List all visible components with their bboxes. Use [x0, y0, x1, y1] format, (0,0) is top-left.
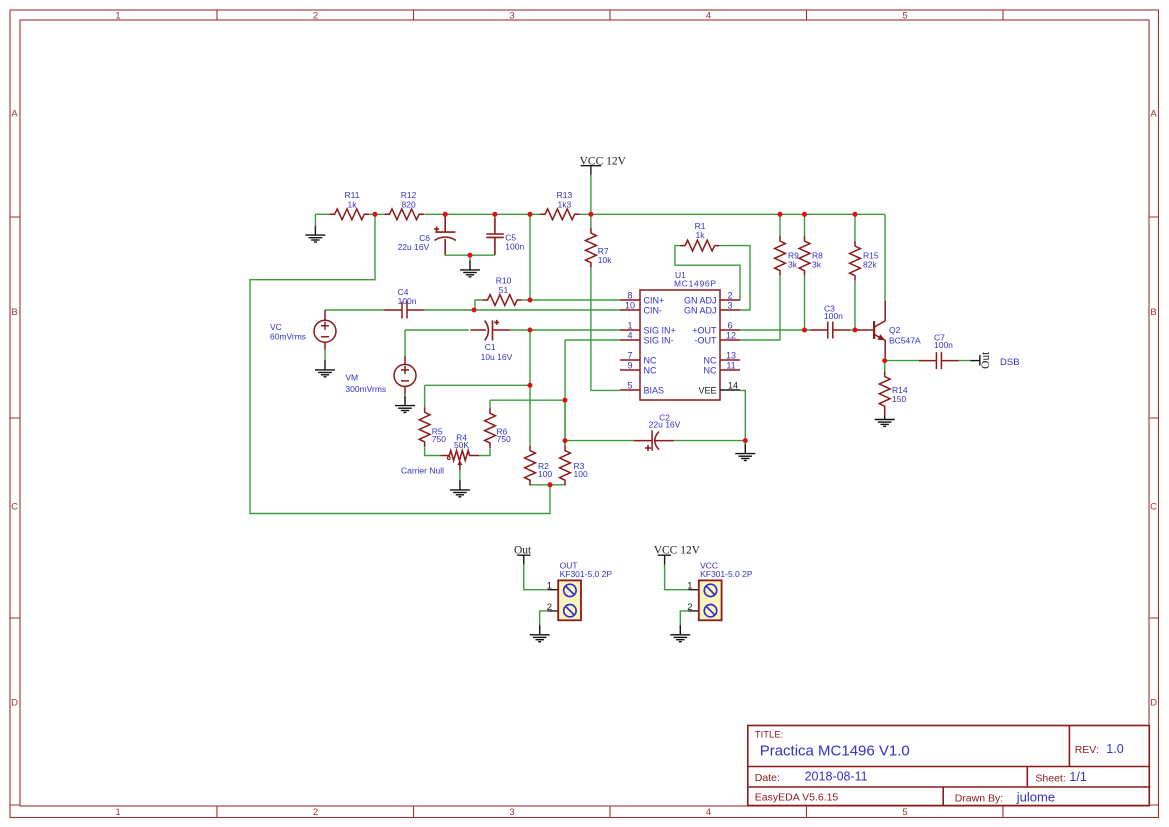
svg-text:5: 5 — [902, 11, 907, 22]
svg-text:KF301-5.0 2P: KF301-5.0 2P — [560, 569, 613, 579]
svg-text:100: 100 — [538, 469, 552, 479]
svg-text:VCC 12V: VCC 12V — [580, 155, 627, 167]
svg-text:VEE: VEE — [698, 385, 716, 395]
svg-text:4: 4 — [706, 807, 711, 818]
svg-text:R11: R11 — [345, 190, 360, 200]
svg-text:1: 1 — [627, 321, 632, 331]
svg-text:100n: 100n — [398, 296, 417, 306]
svg-text:2: 2 — [313, 11, 318, 22]
svg-text:3: 3 — [727, 301, 732, 311]
svg-text:2: 2 — [727, 291, 732, 301]
svg-text:Out: Out — [514, 545, 532, 557]
svg-text:-OUT: -OUT — [695, 335, 717, 345]
svg-text:B: B — [11, 307, 17, 318]
svg-text:EasyEDA V5.6.15: EasyEDA V5.6.15 — [755, 791, 839, 803]
svg-text:B: B — [1150, 307, 1156, 318]
svg-text:BIAS: BIAS — [644, 385, 665, 395]
svg-text:100n: 100n — [934, 340, 953, 350]
svg-text:Practica MC1496 V1.0: Practica MC1496 V1.0 — [760, 743, 910, 760]
svg-text:2: 2 — [313, 807, 318, 818]
svg-text:100n: 100n — [824, 311, 843, 321]
svg-text:D: D — [1150, 698, 1157, 709]
svg-text:BC547A: BC547A — [889, 335, 921, 345]
svg-text:3: 3 — [509, 807, 514, 818]
svg-text:150: 150 — [892, 394, 906, 404]
svg-text:Sheet:: Sheet: — [1035, 773, 1065, 785]
svg-text:A: A — [1150, 109, 1157, 120]
svg-text:4: 4 — [627, 331, 632, 341]
svg-text:julome: julome — [1016, 789, 1055, 804]
svg-text:DSB: DSB — [1000, 357, 1020, 368]
svg-text:VM: VM — [345, 373, 358, 383]
svg-text:Carrier Null: Carrier Null — [401, 466, 444, 476]
svg-text:1: 1 — [687, 581, 692, 592]
svg-text:8: 8 — [627, 291, 632, 301]
svg-text:C: C — [11, 502, 18, 513]
svg-text:TITLE:: TITLE: — [755, 729, 784, 740]
svg-text:GN ADJ: GN ADJ — [684, 305, 717, 315]
svg-text:C1: C1 — [485, 342, 496, 352]
svg-text:11: 11 — [726, 361, 735, 371]
svg-text:1/1: 1/1 — [1069, 770, 1086, 784]
svg-text:100n: 100n — [505, 242, 524, 252]
svg-text:82k: 82k — [863, 260, 877, 270]
svg-text:100: 100 — [574, 469, 588, 479]
svg-text:1: 1 — [547, 581, 552, 592]
svg-text:22u 16V: 22u 16V — [398, 242, 430, 252]
svg-text:9: 9 — [627, 361, 632, 371]
svg-text:3: 3 — [509, 11, 514, 22]
svg-text:1.0: 1.0 — [1106, 742, 1123, 756]
svg-text:2: 2 — [547, 602, 552, 613]
svg-text:5: 5 — [627, 381, 632, 391]
svg-text:Out: Out — [980, 351, 992, 369]
svg-text:1k3: 1k3 — [558, 200, 572, 210]
svg-text:10k: 10k — [598, 255, 612, 265]
svg-text:CIN-: CIN- — [644, 305, 663, 315]
svg-text:Drawn By:: Drawn By: — [955, 792, 1003, 804]
svg-text:10u 16V: 10u 16V — [481, 352, 513, 362]
svg-text:SIG IN+: SIG IN+ — [644, 325, 676, 335]
svg-text:Date:: Date: — [755, 772, 780, 784]
svg-text:4: 4 — [706, 11, 711, 22]
svg-text:Q2: Q2 — [889, 325, 901, 335]
svg-text:1: 1 — [115, 11, 120, 22]
svg-text:820: 820 — [402, 200, 416, 210]
svg-text:2: 2 — [687, 602, 692, 613]
svg-text:2018-08-11: 2018-08-11 — [805, 769, 868, 783]
svg-text:3k: 3k — [788, 260, 798, 270]
svg-text:CIN+: CIN+ — [644, 295, 665, 305]
svg-text:SIG IN-: SIG IN- — [644, 335, 674, 345]
svg-text:R13: R13 — [557, 190, 573, 200]
svg-text:NC: NC — [704, 355, 717, 365]
svg-text:12: 12 — [726, 331, 736, 341]
svg-text:300mVrms: 300mVrms — [345, 384, 386, 394]
svg-text:1k: 1k — [696, 230, 706, 240]
svg-text:750: 750 — [497, 434, 511, 444]
svg-text:GN ADJ: GN ADJ — [684, 295, 717, 305]
svg-text:NC: NC — [644, 365, 657, 375]
svg-text:1k: 1k — [348, 200, 358, 210]
svg-text:A: A — [11, 109, 18, 120]
svg-text:6: 6 — [727, 321, 732, 331]
svg-text:10: 10 — [625, 301, 635, 311]
svg-text:C: C — [1150, 502, 1157, 513]
svg-text:5: 5 — [902, 807, 907, 818]
svg-text:D: D — [11, 698, 18, 709]
svg-text:3k: 3k — [812, 260, 822, 270]
svg-text:13: 13 — [726, 351, 736, 361]
svg-text:MC1496P: MC1496P — [674, 279, 717, 289]
svg-text:+OUT: +OUT — [692, 325, 717, 335]
svg-text:50K: 50K — [454, 440, 469, 450]
svg-text:VCC 12V: VCC 12V — [654, 545, 701, 557]
svg-text:R10: R10 — [496, 276, 512, 286]
svg-text:NC: NC — [644, 355, 657, 365]
svg-text:7: 7 — [627, 351, 632, 361]
svg-text:750: 750 — [432, 434, 446, 444]
svg-text:14: 14 — [728, 381, 738, 391]
svg-text:60mVrms: 60mVrms — [270, 331, 306, 341]
svg-text:R12: R12 — [401, 190, 417, 200]
svg-text:REV:: REV: — [1075, 744, 1099, 756]
svg-text:1: 1 — [115, 807, 120, 818]
svg-text:KF301-5.0 2P: KF301-5.0 2P — [700, 569, 753, 579]
svg-text:51: 51 — [499, 285, 509, 295]
svg-text:NC: NC — [704, 365, 717, 375]
svg-text:22u 16V: 22u 16V — [649, 420, 681, 430]
